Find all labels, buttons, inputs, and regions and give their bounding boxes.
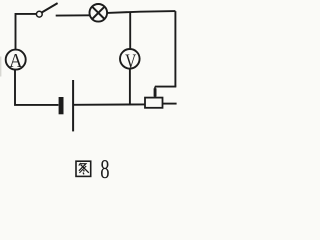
- lamp X1 (cross stroke 1): [92, 7, 104, 19]
- ammeter A (circle): [6, 50, 26, 70]
- wire left vertical (top-left corner down to ammeter): [16, 14, 37, 50]
- wire battery to rheostat box: [74, 103, 145, 105]
- rheostat R (slider arrow bar): [154, 88, 157, 96]
- lamp X1 (cross stroke 2): [92, 7, 104, 19]
- wire lamp to top-right corner: [107, 11, 175, 13]
- wire corner to rheostat slider: [155, 86, 176, 88]
- wire switch to lamp: [56, 14, 90, 16]
- svg-text:8: 8: [100, 155, 109, 185]
- wire right vertical: [174, 11, 176, 87]
- battery GB (negative short thick plate): [59, 97, 64, 114]
- rheostat R (resistance box): [145, 98, 163, 108]
- voltmeter V (circle): [120, 49, 140, 69]
- battery GB (positive long thin plate): [72, 80, 74, 131]
- wire rheostat right stub: [163, 103, 177, 105]
- caption 图 (figure label, drawn glyph): [76, 161, 91, 176]
- svg-text:A: A: [9, 50, 23, 72]
- lamp X1 (circle): [90, 4, 108, 22]
- node junction top (lamp wire / voltmeter branch): [129, 12, 131, 49]
- switch S (open blade): [42, 3, 58, 12]
- wire bottom horizontal (left corner to battery): [15, 69, 58, 105]
- switch S (pivot circle): [36, 11, 42, 17]
- scan smudge at left edge: [0, 57, 1, 77]
- rheostat R (slider stem): [154, 87, 156, 98]
- wire voltmeter bottom lead to node junction bottom: [129, 69, 131, 105]
